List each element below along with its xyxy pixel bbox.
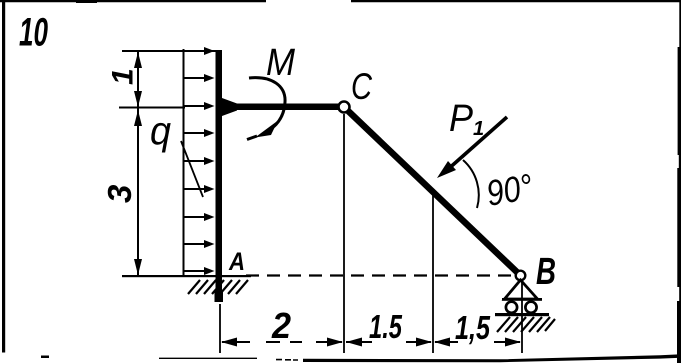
bar embedded tip blob [215, 290, 224, 302]
dashed line A to B [246, 274, 512, 276]
svg-text:C: C [351, 66, 372, 107]
svg-text:1.5: 1.5 [369, 308, 402, 345]
svg-text:1: 1 [107, 68, 140, 85]
hatching at A [188, 280, 248, 294]
roller support triangle at B [505, 280, 538, 299]
dimension line 1-3 vertical [137, 52, 139, 275]
distributed load left line [183, 49, 185, 276]
svg-text:2: 2 [271, 305, 291, 346]
svg-text:A: A [228, 248, 245, 276]
hatching at B [497, 317, 555, 332]
roller right [525, 302, 536, 313]
svg-text:P: P [449, 98, 474, 140]
ground line at A [122, 275, 251, 277]
diagonal member C to B [344, 107, 520, 275]
svg-text:10: 10 [19, 11, 48, 55]
90 degree arc [463, 160, 479, 208]
ground line at B [495, 313, 549, 316]
moment M arrowhead [255, 121, 278, 138]
force P1 arrow [446, 117, 507, 171]
arrow down to bottom tick [134, 259, 142, 275]
frame bottom border [41, 354, 681, 362]
distributed load q arrows [184, 51, 206, 271]
arrow up to top tick [134, 52, 142, 68]
svg-text:90°: 90° [483, 166, 535, 214]
arrow up from mid tick [134, 110, 142, 126]
extension line below bar at A [219, 304, 221, 353]
extension line at P1 point [432, 190, 434, 353]
dimension 1.5 line (first) [346, 341, 431, 343]
pin at B [516, 271, 526, 281]
frame left border [2, 2, 5, 353]
leader line from q [181, 141, 203, 197]
moment M arrow tail [247, 136, 257, 140]
roller support base line [502, 298, 542, 301]
extension line below B [521, 282, 523, 353]
svg-text:B: B [536, 251, 556, 293]
pin at C [339, 102, 350, 113]
tick top of bar [122, 50, 216, 52]
svg-text:M: M [266, 42, 295, 84]
frame right border [677, 0, 681, 363]
junction blob bar to member [222, 98, 237, 116]
tick at member level [119, 107, 185, 109]
frame top border [0, 0, 681, 3]
extension line below C [343, 114, 345, 353]
arrow down to mid tick [134, 91, 142, 107]
dimension 2 line [222, 341, 342, 343]
horizontal member to C [222, 104, 341, 111]
moment M arc [249, 78, 285, 131]
svg-text:3: 3 [101, 185, 138, 203]
svg-text:1,5: 1,5 [455, 309, 490, 346]
svg-text:1: 1 [473, 118, 484, 140]
roller left [506, 302, 517, 313]
bar (vertical member A) [216, 50, 223, 300]
dimension 1,5 line (second) [435, 341, 520, 343]
svg-text:q: q [150, 109, 171, 153]
